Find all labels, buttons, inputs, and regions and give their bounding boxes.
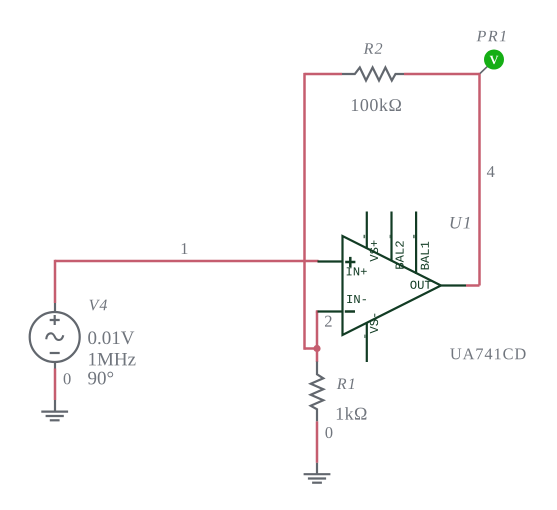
value 1MHz <box>89 353 135 366</box>
value 90 deg <box>88 372 113 385</box>
op-amp U1 triangle <box>318 212 467 363</box>
wire right vertical node 4 <box>478 73 481 286</box>
pin label OUT <box>410 281 431 289</box>
pin number tick VS+ <box>363 235 365 238</box>
value 1k ohm <box>337 407 367 419</box>
wire loop bottom horizontal <box>305 347 318 350</box>
pin OUT <box>441 284 466 286</box>
value 100k ohm <box>352 99 401 112</box>
wire top-left segment node 4 <box>305 73 343 76</box>
pin label VS+ <box>370 240 378 261</box>
pin BAL2 <box>390 212 392 262</box>
pin IN- (pin 2) <box>318 310 343 312</box>
pin label BAL2 <box>395 241 403 268</box>
wire input horizontal node 1 <box>55 260 319 263</box>
wire input vertical above V4 <box>54 260 57 303</box>
net label 4 <box>487 166 495 177</box>
pin number tick BAL2 <box>389 235 391 238</box>
resistor R1 <box>311 362 324 422</box>
pin VS- <box>366 323 368 362</box>
net label 0 at V4 <box>64 373 71 384</box>
wire junction riser to IN- <box>316 312 319 350</box>
wire output segment <box>466 284 480 287</box>
label UA741CD <box>450 348 525 359</box>
wire junction to R1 <box>316 349 319 363</box>
source V4 <box>30 303 80 369</box>
label U1 <box>451 217 470 229</box>
ground below V4 <box>41 400 68 420</box>
pin number tick BAL1 <box>413 235 415 238</box>
pin IN+ (pin 1) <box>318 260 343 262</box>
pin BAL1 <box>415 212 417 275</box>
wire R1 to ground node 0 <box>316 421 319 463</box>
wire below V4 node 0 <box>54 369 57 401</box>
pin label VS- <box>370 314 378 334</box>
pin label IN+ <box>347 267 367 275</box>
net label 1 <box>182 243 188 254</box>
value 0.01V <box>88 331 134 344</box>
wire IN- stub <box>316 310 319 313</box>
net label 0 at R1 <box>325 427 332 438</box>
label PR1 <box>477 31 506 42</box>
pin number tick VS- <box>364 335 366 338</box>
resistor R2 <box>342 68 404 81</box>
pin VS+ <box>366 212 368 250</box>
label R1 <box>337 378 354 389</box>
pin label IN- <box>347 295 366 303</box>
label V4 <box>89 300 107 311</box>
plus marker <box>345 257 355 267</box>
junction node 2 <box>313 345 320 352</box>
label R2 <box>364 43 383 54</box>
pin label BAL1 <box>421 242 429 270</box>
wire left loop vertical <box>303 73 306 350</box>
minus marker <box>345 310 355 313</box>
net label 2 <box>325 316 332 327</box>
wire top-right segment node 4 <box>404 73 480 76</box>
probe PR1 <box>480 50 504 74</box>
ground below R1 <box>304 463 331 483</box>
